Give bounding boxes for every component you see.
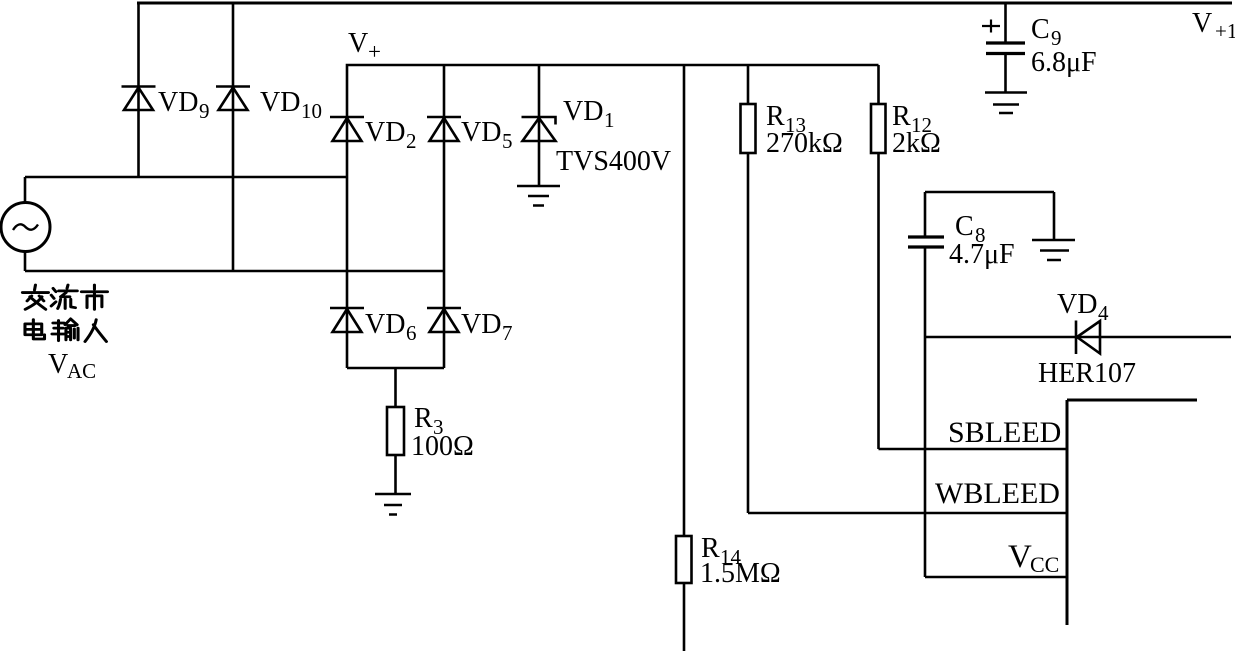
svg-text:VD: VD — [158, 87, 198, 118]
svg-text:4: 4 — [1098, 301, 1109, 325]
label C8 — [955, 211, 986, 247]
wire IC top edge — [1067, 399, 1197, 402]
wire R12 branch vertical — [877, 65, 880, 449]
ground under VD1 — [517, 186, 560, 206]
svg-text:100Ω: 100Ω — [411, 431, 474, 462]
svg-text:VD: VD — [365, 117, 405, 148]
svg-text:7: 7 — [502, 321, 513, 345]
wire R3 ground lead — [394, 455, 397, 494]
label C8 value — [949, 239, 1015, 270]
svg-text:VD: VD — [461, 117, 501, 148]
label WBLEED pin — [935, 477, 1060, 510]
label VAC — [48, 349, 96, 383]
label R12 — [892, 101, 932, 137]
svg-text:WBLEED: WBLEED — [935, 477, 1060, 510]
svg-text:10: 10 — [301, 99, 322, 123]
wire VCC line — [925, 576, 1067, 579]
label R3 value — [411, 431, 474, 462]
label R13 value — [766, 128, 843, 159]
label V+15 node — [1192, 8, 1235, 43]
wire VD9 branch vertical — [137, 3, 140, 177]
diode VD1 TVS — [522, 117, 556, 141]
ground under R3 — [375, 494, 411, 515]
wire C8 top horizontal — [925, 191, 1054, 194]
svg-text:4.7μF: 4.7μF — [949, 239, 1015, 270]
svg-text:C: C — [1031, 14, 1050, 45]
svg-text:5: 5 — [502, 129, 513, 153]
wire lower AC horizontal — [25, 270, 444, 273]
label Chinese line 2: 电输入 — [25, 319, 106, 342]
label R14 value — [700, 558, 781, 589]
svg-text:V: V — [48, 349, 68, 380]
svg-text:6: 6 — [406, 321, 417, 345]
wire VD1 branch vertical — [538, 65, 541, 186]
svg-text:1.5MΩ: 1.5MΩ — [700, 558, 781, 589]
svg-text:V: V — [1192, 8, 1212, 39]
diode VD5 — [427, 117, 461, 141]
ground right of C8 — [1032, 240, 1075, 260]
label C9 — [1031, 14, 1062, 50]
svg-text:6.8μF: 6.8μF — [1031, 47, 1097, 78]
label VD9 — [158, 87, 210, 123]
svg-text:2: 2 — [406, 129, 417, 153]
resistor R13 — [741, 104, 756, 153]
svg-text:VD: VD — [461, 309, 501, 340]
svg-text:AC: AC — [67, 359, 96, 383]
wire C8 ground lead — [1053, 192, 1056, 240]
label VD1 — [563, 96, 615, 132]
svg-text:R: R — [414, 403, 433, 434]
resistor R12 — [871, 104, 886, 153]
label HER107 — [1038, 358, 1136, 389]
label TVS400V — [556, 146, 671, 177]
label VD4 — [1057, 289, 1109, 325]
svg-text:HER107: HER107 — [1038, 358, 1136, 389]
wire R13 branch vertical — [747, 65, 750, 513]
svg-text:+: + — [368, 39, 381, 64]
svg-text:C: C — [955, 211, 974, 242]
label R12 value — [892, 128, 941, 159]
label R13 — [766, 101, 806, 137]
wire VD5 branch vertical — [443, 65, 446, 368]
diode VD10 — [216, 87, 250, 111]
wire V+ rail — [347, 65, 879, 368]
wire top rail — [137, 2, 1232, 5]
diode VD9 — [122, 87, 156, 111]
diode VD4 — [1076, 321, 1100, 355]
label VCC pin — [1008, 539, 1059, 577]
svg-text:VD: VD — [563, 96, 603, 127]
svg-text:SBLEED: SBLEED — [948, 416, 1061, 449]
svg-text:9: 9 — [199, 99, 210, 123]
wire VD4 line — [925, 336, 1231, 339]
wire R3 top lead — [394, 368, 397, 407]
svg-text:270kΩ: 270kΩ — [766, 128, 843, 159]
diode VD7 — [427, 308, 461, 332]
ground under C9 — [985, 93, 1027, 114]
label VD10 — [260, 87, 322, 123]
wire upper AC horizontal — [25, 176, 347, 179]
label VD7 — [461, 309, 513, 345]
svg-text:CC: CC — [1030, 552, 1059, 577]
wire AC source bottom lead — [24, 250, 27, 271]
wire C9 top lead — [1004, 3, 1007, 43]
label VD2 — [365, 117, 417, 153]
capacitor C9 plus sign — [982, 20, 1000, 33]
AC source VAC — [1, 203, 50, 252]
wire R14 bottom lead — [683, 583, 686, 651]
label SBLEED pin — [948, 416, 1061, 449]
wire VD10 branch vertical — [232, 3, 235, 271]
svg-text:2kΩ: 2kΩ — [892, 128, 941, 159]
wire WBLEED line — [748, 512, 1067, 515]
label V+ node — [348, 28, 381, 64]
label R3 — [414, 403, 444, 439]
svg-text:+15: +15 — [1215, 19, 1235, 43]
wire long center vertical to R14 — [683, 65, 686, 536]
svg-text:VD: VD — [365, 309, 405, 340]
label VD6 — [365, 309, 417, 345]
svg-text:VD: VD — [260, 87, 300, 118]
capacitor C9 plates — [986, 43, 1025, 54]
label Chinese line 1: 交流市 — [22, 285, 107, 309]
wire AC source top lead — [24, 177, 27, 204]
resistor R14 — [676, 536, 692, 583]
diode VD6 — [330, 308, 364, 332]
label VD5 — [461, 117, 513, 153]
svg-text:TVS400V: TVS400V — [556, 146, 671, 177]
svg-text:V: V — [348, 28, 368, 59]
wire C9 ground lead — [1004, 53, 1007, 92]
svg-text:VD: VD — [1057, 289, 1097, 320]
label C9 value — [1031, 47, 1097, 78]
resistor R3 — [387, 407, 404, 455]
svg-text:V: V — [1008, 539, 1032, 575]
wire bridge bottom — [347, 367, 444, 370]
wire right bus vertical — [924, 192, 927, 577]
wire IC left edge — [1066, 400, 1069, 625]
svg-text:1: 1 — [604, 108, 615, 132]
diode VD2 — [330, 117, 364, 141]
wire SBLEED line — [879, 448, 1068, 451]
capacitor C8 plates — [908, 237, 944, 247]
label R14 — [701, 533, 742, 569]
